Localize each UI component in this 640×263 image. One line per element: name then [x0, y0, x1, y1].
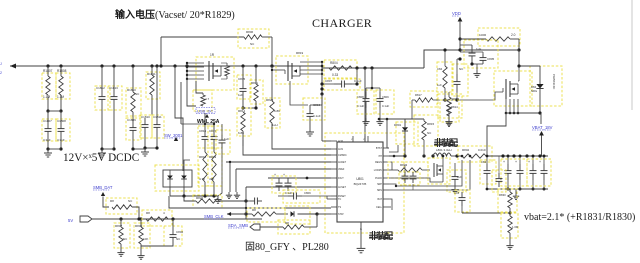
svg-text:STAT: STAT: [338, 213, 344, 216]
wire left lower rail: [245, 187, 247, 219]
IC pin right REGN: [383, 161, 389, 163]
junction bus after R804: [355, 66, 358, 69]
svg-text:R814: R814: [451, 105, 458, 109]
IC pin left CMSRC: [331, 154, 337, 156]
capacitor battery bank 1: [507, 156, 509, 164]
ground mid columns x102: [101, 149, 103, 153]
svg-text:R814: R814: [452, 97, 460, 101]
wire LODRV row: [389, 169, 393, 171]
IC pins top VCC: [352, 136, 354, 142]
svg-text:+: +: [274, 173, 276, 177]
junction on bus: [59, 64, 62, 67]
svg-text:R803: R803: [400, 163, 408, 167]
ground R1814b: [448, 120, 450, 123]
svg-text:R817: R817: [415, 93, 422, 97]
capacitor battery bank 3: [532, 156, 534, 164]
resistor R1803 LODRV gate: [388, 162, 428, 178]
svg-text:SMB_DAT: SMB_DAT: [93, 185, 113, 190]
svg-text:R8: R8: [110, 199, 114, 203]
resistor R1827 to gnd: [134, 223, 150, 248]
capacitor C1806: [460, 51, 483, 53]
junction on bus: [270, 64, 273, 67]
wire C1821 feed: [443, 168, 455, 182]
svg-text:R804: R804: [330, 61, 338, 65]
wire gnd2 stub: [218, 148, 222, 196]
wire bundle IOUT: [268, 177, 331, 179]
svg-text:VREF: VREF: [338, 168, 345, 171]
svg-text:BQ24735: BQ24735: [354, 182, 367, 186]
svg-text:+: +: [283, 173, 285, 177]
wire Q3 drain feed: [518, 50, 520, 66]
svg-text:VBAT_18V: VBAT_18V: [532, 125, 553, 130]
junction SRN right: [469, 155, 472, 158]
wire SRP: [389, 160, 462, 186]
wire Q1 drain down: [196, 81, 203, 93]
wire after R1825: [173, 218, 246, 220]
ground left pair: [47, 149, 49, 153]
arrow to WML text: [205, 114, 209, 118]
resistor R1830 divider top: [498, 189, 517, 212]
svg-text:R820: R820: [266, 98, 274, 102]
junction on bus: [46, 64, 49, 67]
IC pin bottom GND: [360, 222, 362, 244]
ground bundle 2: [236, 192, 238, 195]
svg-text:L801 3.3uH: L801 3.3uH: [436, 148, 452, 152]
junction divider mid: [509, 212, 512, 215]
svg-text:2: 2: [0, 71, 2, 75]
resistor R1817tr gate series: [410, 91, 437, 107]
capacitor C1810p polarized pair: [272, 176, 296, 193]
big highlight box IC area: [325, 133, 404, 233]
wire CELL row: [389, 206, 391, 208]
svg-text:NRG: NRG: [531, 89, 537, 93]
svg-text:1.0M: 1.0M: [512, 225, 519, 229]
wire C808 C809 tie: [366, 87, 380, 89]
svg-text:PGND: PGND: [375, 177, 382, 180]
resistor R1825 series: [142, 210, 172, 226]
junction VDD node: [458, 37, 461, 40]
resistor R1826 to gnd: [114, 223, 130, 248]
svg-text:SMB_CLK: SMB_CLK: [204, 214, 224, 219]
svg-text:VDD: VDD: [452, 11, 461, 16]
wire VREF ground drop: [235, 169, 237, 192]
svg-text:C813: C813: [313, 103, 321, 107]
svg-text:ACDET: ACDET: [338, 161, 347, 164]
wire divider tap left: [462, 212, 510, 214]
svg-text:C84: C84: [437, 67, 443, 71]
junction on bus: [150, 64, 153, 67]
svg-text:R1811: R1811: [147, 72, 156, 76]
wire 5V rail: [92, 218, 262, 220]
svg-text:C1813: C1813: [109, 86, 118, 90]
resistor R1817 gate: [226, 63, 228, 66]
IC pin right BAT: [383, 198, 389, 200]
highlight box bank pair 1: [501, 159, 527, 186]
wire Q3 left leg down: [487, 113, 506, 156]
junction on bus: [155, 64, 158, 67]
junction top branch right: [270, 64, 273, 67]
wire Q3 rail down right: [540, 113, 542, 124]
inductor L1801: [433, 153, 451, 156]
wire Q1 stack down elbow: [187, 79, 196, 106]
svg-text:C1808: C1808: [57, 119, 66, 123]
wire mid column tops: [181, 123, 214, 125]
wire bundle ACN from R1820: [272, 131, 331, 149]
ground divider base: [509, 242, 511, 246]
wire sense cap feeds: [404, 165, 406, 172]
resistor R1814b: [438, 94, 462, 118]
ground C813: [309, 128, 311, 132]
svg-text:ACSET: ACSET: [338, 186, 347, 189]
wire PH row: [389, 155, 406, 157]
svg-text:C1811: C1811: [153, 115, 162, 119]
svg-text:0.1uF: 0.1uF: [285, 191, 292, 195]
IC pin left IINSET: [331, 195, 337, 197]
svg-text:5V: 5V: [68, 218, 73, 223]
junction after L1801: [455, 154, 458, 157]
resistor R1811: [146, 72, 160, 99]
wire Q4 source down: [442, 174, 444, 182]
wire gate row to Q3: [433, 92, 503, 100]
svg-text:D801: D801: [394, 123, 402, 127]
junction ground rail left: [46, 147, 49, 150]
wire SRN: [389, 160, 470, 190]
diode D1803 body: [530, 66, 562, 106]
ground R1814b: [448, 118, 450, 122]
resistor R1823 STAT row: [247, 208, 285, 222]
svg-text:输入电压(Vacset/ 20*R1829): 输入电压(Vacset/ 20*R1829): [115, 8, 235, 21]
svg-text:BAT: BAT: [378, 198, 383, 201]
svg-text:SRN: SRN: [377, 189, 382, 192]
capacitor C1821: [447, 170, 466, 192]
svg-text:100R: 100R: [479, 33, 487, 37]
svg-text:1uF: 1uF: [238, 93, 243, 97]
IC pin left VREF: [331, 168, 337, 170]
wire TS row from diode block: [169, 196, 331, 208]
wire Q4 drain to rail: [442, 156, 444, 166]
port SDA_SMB: [250, 224, 260, 230]
dual diode D1801: [155, 165, 199, 191]
svg-text:0.33: 0.33: [332, 73, 338, 77]
svg-text:R806: R806: [246, 30, 254, 34]
svg-text:0.1uF: 0.1uF: [357, 104, 364, 108]
svg-text:C808: C808: [357, 95, 364, 99]
resistor R1816tr vertical: [437, 62, 453, 92]
junction Q4 drain: [442, 155, 445, 158]
junction bootstrap: [378, 118, 381, 121]
svg-text:J: J: [0, 62, 2, 66]
junction on bus: [131, 64, 134, 67]
svg-text:ACN: ACN: [338, 148, 343, 151]
junction STAT diode: [315, 212, 318, 215]
svg-text:R8: R8: [146, 211, 150, 215]
svg-text:3.3nF: 3.3nF: [43, 138, 51, 142]
capacitor C1822 NC: [452, 64, 468, 96]
svg-text:R8: R8: [285, 221, 289, 225]
wire VBAT rail: [503, 155, 548, 157]
wire VDD vertical: [459, 21, 461, 50]
svg-text:C805: C805: [487, 57, 495, 61]
wire bank gnd stem: [515, 189, 517, 193]
svg-text:C1810: C1810: [141, 115, 150, 119]
svg-text:LODRV: LODRV: [374, 169, 383, 172]
wire REGN row: [389, 162, 392, 170]
junction PH node: [393, 155, 396, 158]
VIN bus left arrow: [10, 64, 16, 69]
ground R1826: [120, 249, 122, 253]
wire C1810 link: [145, 147, 157, 149]
resistor R1808: [56, 73, 70, 99]
wire Q1 drop to column top: [180, 82, 182, 124]
resistor R1810: [126, 88, 141, 116]
junction y201 wire: [244, 199, 247, 202]
capacitor C1826 left of bank: [480, 160, 496, 184]
svg-text:BTST: BTST: [376, 147, 383, 150]
svg-text:10K: 10K: [143, 237, 148, 241]
transistor Q4 low side: [428, 158, 450, 184]
svg-text:CELL: CELL: [376, 206, 383, 209]
IC pin left ACN: [331, 148, 337, 150]
capacitor C1813b: [303, 98, 325, 120]
capacitor C1812: [95, 86, 110, 110]
junction on bus: [241, 64, 244, 67]
wire BAT row to caps: [389, 199, 392, 210]
capacitor C1808b: [357, 90, 374, 114]
svg-text:1uH: 1uH: [272, 123, 278, 127]
svg-text:IOUT: IOUT: [338, 177, 344, 180]
svg-text:1.1M: 1.1M: [43, 95, 50, 99]
svg-text:R830: R830: [499, 193, 506, 197]
sense filter caps: [399, 172, 420, 185]
svg-text:C807: C807: [325, 79, 333, 83]
svg-text:4.7: 4.7: [205, 97, 210, 101]
ground C808: [365, 118, 367, 122]
junction left bank: [486, 155, 489, 158]
junction 5V rail: [119, 217, 122, 220]
svg-text:3.3nF: 3.3nF: [57, 138, 65, 142]
svg-text:R822: R822: [196, 196, 204, 200]
net label USB_DC: [196, 108, 215, 114]
IC U1801 charger controller: [337, 142, 383, 222]
svg-text:12V×ˣ5V DCDC: 12V×ˣ5V DCDC: [63, 152, 139, 164]
resistor R1812: [250, 80, 263, 104]
junction R1807/R1808 bottom: [46, 109, 49, 112]
IC pin right SRP: [383, 183, 389, 185]
wire BTST row: [387, 147, 389, 149]
svg-text:固80_GFY 、PL280: 固80_GFY 、PL280: [245, 241, 329, 253]
ground mid columns: [217, 196, 219, 200]
svg-text:C815: C815: [238, 77, 246, 81]
svg-text:4.7K: 4.7K: [199, 177, 205, 181]
capacitor C1809c INSET: [283, 190, 320, 203]
svg-text:R815: R815: [427, 122, 435, 126]
svg-text:C1807: C1807: [43, 119, 52, 123]
svg-text:C802: C802: [176, 230, 184, 234]
wire Q2 source down: [290, 81, 308, 105]
junction middle gnd rail: [133, 148, 145, 150]
ground R1827: [140, 252, 142, 256]
svg-text:C1812: C1812: [96, 86, 105, 90]
svg-text:TC: TC: [338, 198, 341, 201]
svg-text:TS: TS: [338, 206, 341, 209]
Q3 bottom rail: [506, 112, 540, 114]
junction mid columns bottom: [190, 195, 218, 197]
IC pin left STAT: [331, 213, 337, 215]
svg-text:+: +: [528, 160, 530, 164]
junction on bus: [112, 64, 115, 67]
wire second col bottom: [242, 140, 244, 146]
svg-text:R811: R811: [251, 81, 258, 85]
svg-text:R814: R814: [238, 109, 246, 113]
junction VBAT rail dots: [501, 154, 504, 157]
svg-text:0.1uF: 0.1uF: [354, 79, 362, 83]
svg-text:0.1uF: 0.1uF: [382, 104, 389, 108]
capacitor battery bank 4: [543, 156, 545, 164]
wire SDA row riser: [316, 214, 318, 227]
IC pin left ACSET: [331, 186, 337, 188]
capacitor C1811: [152, 115, 164, 138]
wire riser top branch right: [271, 37, 273, 66]
junction x243/x256 bottom: [243, 107, 256, 109]
svg-text:SRP: SRP: [377, 183, 382, 186]
resistor R1825b SDA: [278, 220, 310, 234]
wire SDA row right: [304, 226, 317, 228]
ground mid-left: [144, 148, 146, 152]
wire SMB_DAT elbow: [103, 197, 109, 208]
page edge line: [631, 0, 633, 110]
svg-text:G: G: [360, 228, 362, 231]
junction Q2 stack: [320, 87, 323, 90]
wire caps join: [472, 63, 483, 65]
capacitor C1809: [126, 118, 141, 140]
junction top branch left: [159, 64, 162, 67]
arrow SMB_CLK: [227, 212, 231, 216]
Q2 right pin stack: [300, 61, 322, 63]
svg-text:1.1M: 1.1M: [57, 95, 64, 99]
svg-text:C1809: C1809: [127, 118, 136, 122]
svg-text:+: +: [539, 160, 541, 164]
resistor R1806 NC: [238, 29, 269, 48]
junction on bus: [185, 64, 188, 67]
net arrow SW node: [174, 137, 178, 141]
wire SMB_CLK: [227, 213, 246, 215]
resistor R1807: [42, 73, 56, 99]
IC pin left TC: [331, 198, 337, 200]
wire bundle ACP from Q2 stack: [321, 94, 323, 141]
wire C808 C809 riser: [371, 68, 373, 88]
ground cap bank: [515, 193, 517, 196]
svg-text:1uF: 1uF: [457, 175, 462, 179]
wire bootstrap riser: [386, 119, 388, 148]
wire row201 to cap: [246, 200, 250, 202]
svg-text:1R: 1R: [210, 53, 215, 57]
wire top branch: [161, 36, 244, 38]
net arrow VDD: [458, 17, 463, 22]
diode D1801b catch: [396, 122, 418, 144]
svg-text:1uF: 1uF: [224, 137, 229, 141]
wire VBAT arrow stem: [541, 136, 543, 157]
capacitor C1808: [56, 119, 70, 141]
junction on bus: [173, 64, 176, 67]
IC pin right BTST: [383, 147, 389, 149]
capacitor C1809b: [376, 90, 394, 114]
svg-text:CMSRC: CMSRC: [338, 154, 347, 157]
svg-text:C816: C816: [199, 129, 207, 133]
wire bundle VREF: [236, 168, 331, 170]
junction on bus: [100, 64, 103, 67]
junction SRP: [461, 155, 464, 158]
capacitor C1824 tap: [455, 190, 470, 212]
junction on bus: [254, 64, 257, 67]
svg-text:REGN: REGN: [375, 161, 382, 164]
capacitor C1828 on row: [250, 200, 255, 202]
IC pin right LODRV: [383, 169, 389, 171]
resistor R1815b NC: [414, 115, 438, 146]
wire R1805 right riser: [518, 39, 520, 50]
resistor R1824 pullup: [106, 198, 137, 214]
resistor R1804 0.33ohm: [324, 60, 357, 78]
svg-text:+: +: [515, 160, 517, 164]
svg-text:R8: R8: [252, 208, 256, 212]
wire bootstrap tie: [379, 118, 424, 120]
junction C807 left tie: [321, 65, 324, 68]
junction column tops: [204, 123, 206, 125]
net arrow SMB_DAT: [101, 192, 105, 196]
svg-text:+: +: [503, 160, 505, 164]
svg-text:47K: 47K: [209, 177, 214, 181]
ground IC bottom: [360, 244, 362, 248]
junction gate row: [443, 98, 446, 101]
net arrow VBAT: [539, 131, 544, 136]
svg-text:R802: R802: [462, 148, 470, 152]
svg-text:R818: R818: [199, 155, 207, 159]
IC pin right CELL: [383, 206, 389, 208]
svg-text:ACP: ACP: [338, 140, 343, 143]
wire gate row left drop: [411, 100, 413, 119]
capacitor C1807: [42, 119, 56, 141]
gate row Q3: [412, 99, 415, 101]
capacitor C1817: [208, 126, 222, 148]
svg-text:SW_2001: SW_2001: [164, 133, 183, 138]
svg-text:R1808: R1808: [57, 69, 67, 73]
transistor Q1 PMOS: [196, 57, 234, 90]
svg-text:R807: R807: [115, 224, 123, 228]
net VIN bus wire right part: [322, 67, 424, 69]
diode D1802 STAT: [285, 206, 310, 224]
wire PGND row: [389, 178, 443, 182]
IC pin left TS: [331, 206, 337, 208]
capacitor C1813: [108, 86, 122, 110]
capacitor C1807h bypass: [324, 79, 360, 90]
svg-text:PH: PH: [379, 155, 383, 158]
wire jog extension to Q3: [460, 49, 519, 51]
svg-text:6.8K: 6.8K: [274, 109, 280, 113]
wire cap bank bottom rail: [487, 188, 548, 190]
svg-text:C82: C82: [481, 160, 487, 164]
capacitor C1815: [237, 75, 251, 99]
resistor R1814 lower: [237, 108, 251, 136]
wire diode top right branch: [184, 160, 190, 170]
wire top branch right: [262, 36, 272, 38]
resistor R1805 2.0: [478, 28, 520, 46]
capacitor battery bank 2: [519, 156, 521, 164]
wire bundle ACDET drop: [226, 161, 331, 163]
wire bundle CMSRC from R1814: [243, 140, 331, 155]
wire Q3 drain top: [518, 66, 520, 81]
wire SDA row: [260, 226, 283, 228]
capacitor C1805: [464, 40, 498, 68]
svg-text:vbat=2.1* (+R1831/R1830): vbat=2.1* (+R1831/R1830): [524, 212, 635, 223]
